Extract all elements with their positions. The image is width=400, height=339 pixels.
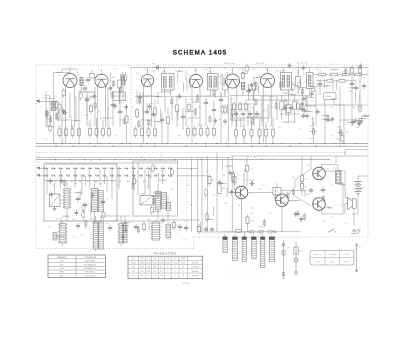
svg-text:47n: 47n [100,183,103,185]
svg-text:100: 100 [229,83,232,85]
wire top bus [131,67,368,69]
IFT1 secondary coil [169,77,172,88]
wafer ladder W1 [58,224,67,244]
resistor R75 [246,163,254,174]
svg-text:OC71: OC71 [159,262,164,264]
svg-text:C.82: C.82 [306,194,310,196]
svg-text:T.7: T.7 [249,193,253,195]
svg-text:C.21: C.21 [330,185,334,187]
resistor R8 [108,126,111,138]
svg-text:C.4: C.4 [237,106,240,108]
resistor R35 h [337,80,347,83]
small rect audio bottom [236,229,242,232]
svg-text:1k5: 1k5 [330,107,333,109]
svg-text:1: 1 [225,272,226,274]
svg-text:classe B: classe B [192,275,200,277]
wafer ladder W4 [151,222,161,240]
svg-text:M.F.3: M.F.3 [280,70,285,72]
svg-text:T.1: T.1 [68,70,72,72]
svg-text:1.5: 1.5 [160,271,163,273]
svg-text:220: 220 [224,68,227,70]
capacitor C74 [245,180,255,186]
svg-text:C.8: C.8 [113,69,116,71]
wire det [224,80,226,96]
wire long vertical d [231,156,233,232]
wire links stage2 [90,118,103,126]
wire ladders mid [67,180,95,224]
svg-text:10k: 10k [150,103,153,105]
svg-text:T.8-9: T.8-9 [181,258,185,260]
resistor R2 [65,127,68,139]
svg-text:-4v: -4v [160,275,163,277]
wire coil down [53,111,55,144]
svg-text:O.C.: O.C. [60,261,65,263]
svg-text:4n7: 4n7 [296,211,299,213]
label mid R63 [236,178,239,180]
svg-text:100: 100 [48,159,51,161]
wire stage1 extra verticals [46,92,76,126]
svg-text:65 mW: 65 mW [192,271,198,273]
svg-text:1k: 1k [305,187,307,189]
svg-text:OC45: OC45 [146,262,151,264]
svg-text:R.12: R.12 [306,165,310,167]
driver transformer box [273,183,281,200]
wire T1 emitter down [241,199,243,232]
misc fine wiring texture [46,63,370,242]
capacitor C14 [160,117,164,123]
svg-text:220: 220 [112,77,115,79]
svg-text:R.7: R.7 [56,219,59,221]
resistor R80 [301,173,308,184]
svg-text:1k5: 1k5 [74,183,77,185]
IFT2 secondary coil [214,77,216,88]
wire L6 [309,68,311,96]
wire audio vertical a [254,156,256,158]
voltage table [310,251,354,266]
terminal line right [355,244,361,273]
label T4 [327,207,332,209]
label T1 [249,193,253,195]
svg-text:1k5: 1k5 [292,177,295,179]
svg-text:C.21: C.21 [300,107,304,109]
capacitor C18 [219,97,223,103]
label R1 value [58,125,61,127]
wire IFT3 leads [283,68,288,102]
resistor R7 [102,126,105,138]
connector strip K4 [251,234,256,259]
resistor mid R61 [208,174,214,186]
tube V5 [226,70,240,88]
transistor T4 [313,198,326,211]
small caps audio [309,187,325,194]
svg-text:10k: 10k [252,207,255,209]
capacitor C40 [309,126,317,141]
svg-text:T.6: T.6 [265,69,269,71]
wire ladder5 tops [236,117,273,127]
resistor R32 h [341,73,352,76]
IF transformer IFT3 box [281,73,292,91]
small comps right of W4 [161,217,182,230]
svg-text:100: 100 [170,189,173,191]
label V1 [68,70,72,72]
caps row above table2 [184,224,214,234]
resistor R11 [154,106,157,118]
resistor mid R63 [232,171,235,184]
svg-text:2: 2 [235,272,236,274]
wire mid line3 [44,162,177,164]
capacitor C13 [61,111,67,120]
svg-text:Vol.: Vol. [142,193,146,195]
resistor R13 [141,127,144,139]
label wafers [56,218,151,221]
svg-text:5: 5 [262,272,263,274]
svg-text:10k: 10k [120,159,123,161]
svg-text:68k: 68k [260,159,263,161]
svg-text:4n7: 4n7 [278,127,281,129]
svg-text:1k5: 1k5 [252,69,255,71]
svg-text:0.8: 0.8 [147,271,150,273]
capacitor C19 [246,88,250,94]
svg-text:1k5: 1k5 [230,99,233,101]
svg-text:u 73 m/m: u 73 m/m [329,254,337,256]
wire mid bus segment [230,96,310,100]
capacitor right1 [318,81,322,87]
resistor R10 [136,108,139,120]
striped ladder M3b [161,192,166,209]
svg-text:C.21: C.21 [344,223,348,225]
audio bottom wire [222,231,300,233]
wafer ladder W2 [92,222,99,249]
svg-text:T.3: T.3 [145,70,149,72]
label V2 [99,70,103,72]
svg-text:ampl: ampl [146,267,150,269]
svg-text:T.1: T.1 [132,258,135,260]
connector strip K2 [233,234,238,261]
mid small caps [76,196,105,208]
resistor R3 [71,127,74,139]
svg-text:C.4: C.4 [318,71,321,73]
chassis dashed border bottom-right segment [194,236,369,238]
wire chain2 [316,80,356,95]
label T2 [290,201,294,203]
svg-text:-6v: -6v [141,275,144,277]
wire V1 top link [62,67,78,73]
labels above top border [152,62,308,66]
svg-text:R.7: R.7 [116,185,119,187]
svg-text:100: 100 [246,157,249,159]
svg-text:TR.6: TR.6 [258,189,262,191]
wire chain [313,74,368,76]
lever switch [328,229,335,233]
striped ladder M2b [98,191,103,212]
wafer ladder W2b [99,222,104,249]
ladder mid W5 [166,224,171,238]
svg-text:-6v: -6v [147,275,150,277]
svg-text:C.41: C.41 [336,139,341,141]
resistor ladder5 a [235,127,238,139]
svg-text:v. 1/2 t: v. 1/2 t [344,253,349,256]
wire links [162,108,168,144]
label stage2 parts [109,90,124,105]
wire under mid [167,220,169,240]
svg-text:68k: 68k [90,219,93,221]
capacitor C11 [138,94,142,100]
connector strip K6 [269,234,274,262]
capacitor right2 [350,81,354,87]
wire bus B+ upper [36,143,368,145]
connector strip K5 [261,234,265,268]
svg-text:T.5: T.5 [230,70,234,72]
resistor R33 h [353,73,364,76]
svg-text:-5: -5 [174,275,176,277]
label R6 value [88,125,91,127]
wire IFT1 leads [165,68,171,97]
svg-text:M.F.1: M.F.1 [162,71,167,73]
svg-text:R.7: R.7 [246,121,249,123]
label V5 [230,70,234,72]
label V6 [265,69,269,71]
table gammes couvertes [48,255,106,278]
svg-text:C.8: C.8 [184,221,187,223]
wire to voltage table [354,248,357,251]
wire antenna coil up [54,73,63,102]
svg-text:R.12: R.12 [142,229,146,231]
wire l5 bottoms [236,136,273,144]
small comps near wafers [76,222,146,233]
svg-text:2xOC74: 2xOC74 [192,262,199,264]
svg-text:C.4: C.4 [130,221,133,223]
svg-text:47n: 47n [176,225,179,227]
wire if2 links [206,92,221,144]
svg-text:conv.: conv. [131,267,136,269]
svg-text:68k: 68k [322,76,325,78]
svg-text:det: det [154,266,157,269]
label V4 [194,70,198,72]
IFT1 primary coil [164,77,167,88]
svg-text:3: 3 [183,271,184,273]
resistor R20 [200,126,203,138]
wire long vertical a [197,158,199,232]
resistor R14 [147,127,150,139]
svg-text:u 90 c: u 90 c [315,261,320,263]
trimmer box stage2 [113,92,126,101]
svg-text:R.31: R.31 [329,121,333,123]
small box ratio det [296,70,301,95]
svg-text:R.7: R.7 [298,129,301,131]
wafer small W1b [53,233,57,241]
svg-text:4274 39: 4274 39 [183,283,190,285]
wire det cluster [282,95,295,122]
svg-text:OC45: OC45 [140,262,145,264]
svg-text:2: 2 [175,271,176,273]
speaker [348,197,356,209]
svg-text:R.31: R.31 [361,77,365,79]
svg-text:C.4: C.4 [330,135,333,137]
resistor R16 [167,115,170,127]
svg-text:BE 1: BE 1 [60,272,65,274]
label R13 value [139,126,142,128]
capacitor stage1b [85,92,89,126]
svg-text:100: 100 [222,175,225,177]
wire battery link [352,176,368,214]
wire contact column drops [44,170,163,189]
svg-text:pre: pre [160,267,163,269]
resistor R23 v [242,70,245,81]
wafer ladder W3 [118,224,124,244]
svg-text:a 41 g: a 41 g [330,261,335,263]
connector strip numbers [225,272,273,274]
label tuning antenna [43,95,56,100]
svg-text:68k: 68k [240,109,243,111]
label R20 value [199,125,203,127]
wire long vertical c [216,152,218,232]
resistor R24 [253,82,256,94]
extra bus dots [55,143,356,144]
IFT3 primary coil [282,76,284,88]
resistor ladder5 e [265,127,268,139]
svg-text:100: 100 [188,75,191,77]
top right corner parts [349,66,366,94]
striped ladder M3 [154,191,162,210]
wire V4 down [192,86,200,144]
svg-text:68k: 68k [168,124,171,126]
label lamp [287,247,302,253]
svg-text:dr: dr [174,267,176,269]
svg-text:10k: 10k [106,223,109,225]
svg-text:1k5: 1k5 [71,125,74,127]
label R3 value [71,125,74,127]
svg-text:OC74: OC74 [181,262,186,264]
label IFT2 [208,71,213,73]
table transistors [128,252,203,279]
shield box left [44,164,117,221]
resistor ladder5 d [258,127,261,139]
svg-text:6-18.5 Mc/s: 6-18.5 Mc/s [85,261,95,263]
svg-text:510-1640 kc/s: 510-1640 kc/s [84,264,97,266]
resistor R19 [193,126,196,138]
resistor R6 [95,126,98,138]
wire T4 collector [322,183,344,214]
svg-text:4n7: 4n7 [160,155,163,157]
resistor stage1b [84,104,93,118]
misc small value labels [44,69,365,231]
switch contacts row 1 [44,167,172,170]
wire T2 collector [287,180,296,196]
striped ladder M2 [90,189,99,212]
svg-text:220: 220 [46,119,49,121]
wire r80 [301,170,303,196]
label audio bottom [258,227,265,229]
svg-text:2: 2 [167,271,168,273]
svg-text:47n: 47n [52,185,55,187]
capacitor C5 [83,85,87,91]
svg-text:T.8: T.8 [290,201,294,203]
wire wafer join [63,243,121,251]
wires stage2 verticals [113,101,127,144]
wire avc long segment [305,96,368,106]
svg-text:68k: 68k [360,189,363,191]
svg-text:R.9: R.9 [80,235,83,237]
ground below osc coil [53,207,57,211]
striped ladder M1 [63,189,72,209]
svg-text:push-pull: push-pull [191,267,199,269]
svg-text:S.1: S.1 [37,156,40,158]
svg-text:R.1: R.1 [212,180,215,182]
resistor R15 [154,127,157,139]
det row extra [280,102,300,115]
wire right border link [345,150,368,156]
wire V4 top to bus [195,68,197,71]
label mid audio [306,194,310,196]
svg-text:3: 3 [244,272,245,274]
svg-text:C.8: C.8 [350,125,353,127]
wafer ladder W3b [123,224,127,244]
svg-text:c 38 s: c 38 s [344,261,349,263]
svg-text:1k5: 1k5 [194,109,197,111]
section divider dashed vertical [130,65,132,152]
svg-text:220: 220 [140,157,143,159]
label c41 extra [346,132,349,134]
battery B1 [355,176,366,199]
wire c40 [313,122,315,144]
svg-text:1: 1 [38,165,39,167]
svg-text:4: 4 [253,272,254,274]
svg-text:10k: 10k [330,78,333,80]
svg-text:R.76: R.76 [250,221,254,223]
svg-text:R.12: R.12 [238,120,242,122]
svg-text:R.31: R.31 [250,107,254,109]
svg-text:R.12: R.12 [152,71,156,73]
svg-text:C.21: C.21 [130,107,134,109]
wire vertical drops top section [62,80,360,144]
wire r23 [242,68,244,97]
svg-text:100: 100 [224,203,227,205]
label table footnote [183,283,190,285]
svg-text:100: 100 [198,107,201,109]
svg-text:C.21: C.21 [356,69,360,71]
svg-text:9v: 9v [359,246,361,248]
svg-text:C.4: C.4 [258,75,261,77]
svg-text:R.31: R.31 [286,115,290,117]
svg-text:R.31: R.31 [270,107,274,109]
resistor R5 [89,126,92,138]
svg-text:4n7: 4n7 [58,75,61,77]
wire V1 cathode down [66,86,75,144]
small transformer box [90,70,95,78]
chassis dashed border top [36,64,368,66]
svg-text:1k5: 1k5 [218,119,221,121]
svg-text:osc.: osc. [152,63,156,65]
capacitor C16 [204,100,208,106]
capacitor C7 [118,109,122,115]
svg-text:OC71: OC71 [153,262,158,264]
coil pre-divider [118,76,125,104]
svg-text:R.9: R.9 [84,227,87,229]
switch contacts row 2 [44,174,172,177]
svg-text:OC72: OC72 [165,262,170,264]
svg-text:-6: -6 [182,275,184,277]
IF transformer IFT2 box [208,74,219,91]
fuse chain [294,241,298,276]
title SCHEMA 1405 [173,50,228,57]
wire interstage [82,86,96,93]
svg-text:R.31: R.31 [238,69,242,71]
capacitor C3 [86,77,90,83]
wire mid line1 [36,159,330,161]
svg-text:6 V 0.3 a: 6 V 0.3 a [314,254,321,256]
svg-text:R.12: R.12 [204,69,208,71]
label ladder5 [241,126,266,128]
